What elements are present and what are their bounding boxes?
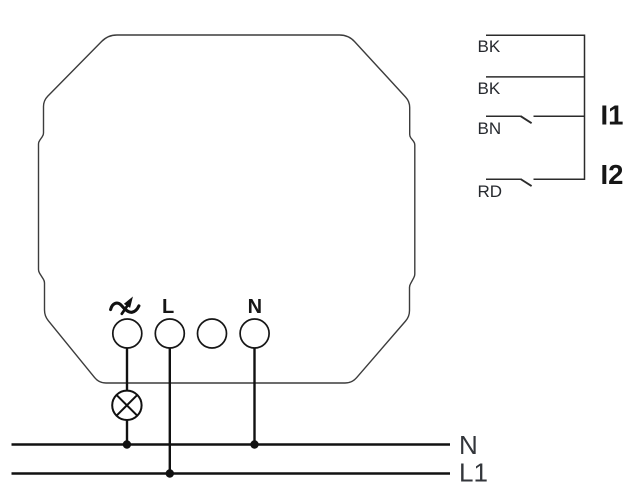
terminal circle 4 (N) [240, 319, 269, 348]
input bus vertical wire [584, 35, 586, 181]
junction dot: L terminal wire on L1 bus [166, 469, 174, 477]
dimmer output symbol (tilde with arrow) above terminal 1 [111, 299, 139, 314]
svg-text:BK: BK [478, 79, 501, 98]
lamp E1 [112, 391, 141, 420]
svg-text:BK: BK [478, 37, 501, 56]
bus line L1 [12, 472, 451, 474]
input diagram: BN wire with switch S1 [486, 116, 585, 123]
terminal circle 3 (unused) [198, 319, 227, 348]
junction dot: N terminal wire on N bus [250, 440, 258, 448]
svg-text:I1: I1 [601, 99, 624, 130]
input diagram: BK wire 1 [486, 34, 585, 36]
svg-text:I2: I2 [601, 159, 624, 190]
svg-text:BN: BN [478, 119, 502, 138]
wire: lamp to N bus [126, 420, 128, 445]
svg-text:L: L [162, 296, 174, 318]
terminal circle 1 (dimmer output) [113, 319, 142, 348]
input diagram: BK wire 2 [486, 76, 585, 78]
wire: terminal 1 to lamp [126, 348, 128, 391]
svg-text:N: N [459, 430, 478, 460]
wire: terminal 2 (L) down to L1 bus [169, 348, 171, 474]
svg-text:N: N [248, 296, 262, 318]
svg-text:RD: RD [478, 182, 503, 201]
device outline U1 flush-mount dimmer actuator housing [39, 35, 415, 383]
terminal circle 2 (L) [155, 319, 184, 348]
input diagram: RD wire with switch S2 [486, 179, 585, 186]
junction dot: lamp wire on N bus [123, 440, 131, 448]
svg-text:L1: L1 [459, 458, 488, 488]
bus line N [12, 443, 451, 445]
wire: terminal 4 (N) down to N bus [253, 348, 255, 445]
